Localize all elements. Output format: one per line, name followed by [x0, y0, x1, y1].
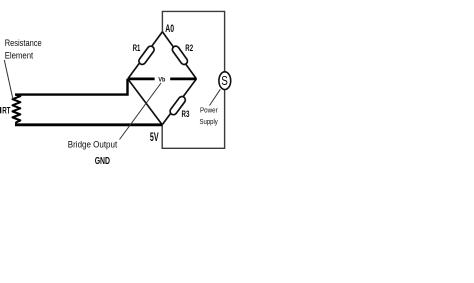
resistor R2 body	[171, 45, 189, 66]
svg-text:R1: R1	[133, 43, 141, 53]
svg-text:RT: RT	[2, 105, 11, 115]
leader line Bridge Output to Vb	[120, 83, 162, 140]
wire bridge middle line left segment (node Vb)	[128, 78, 155, 81]
power supply S circle	[219, 72, 231, 90]
resistor R1 body	[138, 45, 156, 66]
wire bridge middle line right segment	[170, 78, 196, 81]
svg-text:S: S	[221, 73, 228, 88]
wire diamond edge A-B (top-left)	[128, 32, 163, 79]
svg-text:A0: A0	[165, 23, 174, 35]
wire RT bottom wire to bridge bottom node (GND)	[15, 123, 162, 126]
resistor RT zigzag element	[13, 95, 21, 125]
clipped glyph sliver at left edge	[0, 107, 1, 113]
leader line Resistance Element to RT	[4, 60, 13, 100]
svg-text:Resistance: Resistance	[5, 38, 42, 48]
svg-text:Element: Element	[5, 51, 34, 61]
wire RT top wire with step up to left bridge node	[15, 79, 128, 95]
wire diamond edge A-C (top-right)	[162, 32, 196, 79]
svg-text:Vb: Vb	[158, 76, 165, 83]
svg-text:5V: 5V	[150, 130, 159, 144]
svg-text:Power: Power	[200, 106, 218, 115]
wire diamond edge B-D (bottom-left)	[128, 79, 162, 125]
svg-text:Supply: Supply	[200, 117, 218, 126]
svg-text:R2: R2	[185, 43, 193, 53]
wire diamond edge C-D (bottom-right)	[162, 79, 196, 125]
leader line Power Supply to S	[210, 89, 221, 105]
wire power loop rectangle	[162, 11, 224, 148]
resistor R3 body	[169, 95, 187, 116]
svg-text:GND: GND	[95, 156, 110, 167]
svg-text:R3: R3	[182, 109, 190, 119]
svg-text:Bridge Output: Bridge Output	[68, 139, 118, 149]
